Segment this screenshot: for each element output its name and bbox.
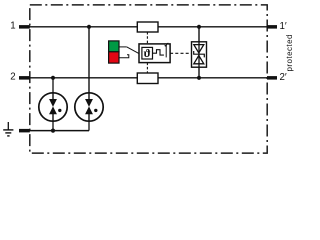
svg-text:2: 2 xyxy=(10,72,15,83)
svg-text:protected: protected xyxy=(285,34,294,71)
svg-text:1′: 1′ xyxy=(280,21,287,32)
svg-text:2′: 2′ xyxy=(280,72,287,83)
svg-text:1: 1 xyxy=(10,21,15,32)
svg-text:ϑ: ϑ xyxy=(144,46,151,60)
